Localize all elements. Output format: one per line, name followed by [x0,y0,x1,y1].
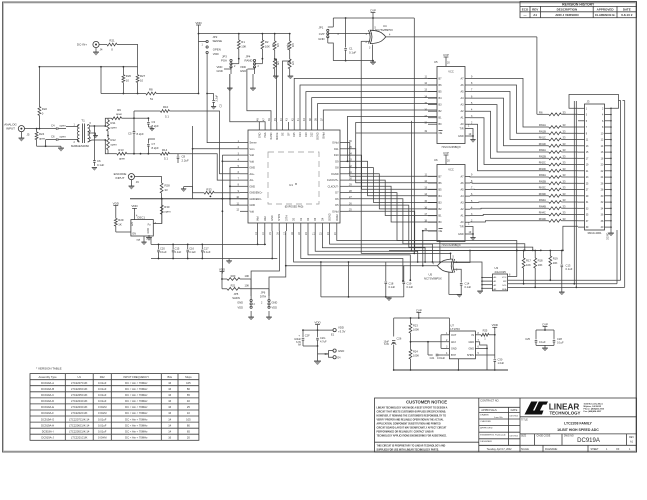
resistor RN3D [539,192,578,197]
svg-text:GND: GND [250,167,256,170]
label ANALOG INPUT [4,122,17,130]
svg-text:GND: GND [240,69,246,73]
power VDD reg [492,323,499,335]
resistor R17 [522,251,531,285]
svg-text:R17: R17 [526,259,531,263]
svg-text:16: 16 [168,393,171,397]
capacitor row C20 C15 C16 C17 [151,238,277,259]
svg-text:INPUT FREQUENCY: INPUT FREQUENCY [123,375,149,379]
svg-text:VDD: VDD [213,52,219,56]
svg-text:0.1uF: 0.1uF [97,163,104,167]
svg-text:DC < Ain < 70MHz: DC < Ain < 70MHz [125,399,148,403]
connector J6 [128,174,139,185]
svg-text:R21: R21 [109,39,115,43]
svg-text:SUPPLIED FOR USE WITH LINEAR T: SUPPLIED FOR USE WITH LINEAR TECHNOLOGY … [377,448,440,451]
svg-text:Vdd: Vdd [264,216,267,221]
svg-text:R19: R19 [553,257,558,261]
ground U4 [369,45,373,61]
svg-text:R29: R29 [118,218,124,222]
svg-text:SHDN: SHDN [232,296,240,300]
svg-text:DC < Ain < 70MHz: DC < Ain < 70MHz [125,436,148,440]
ic U7 LT1763 [449,324,475,359]
svg-text:EN: EN [133,233,137,236]
power VDD at OSC1 [131,204,138,219]
svg-text:MABAES0060: MABAES0060 [71,144,89,148]
ground rail arrow [370,61,376,65]
svg-text:RAND: RAND [245,59,253,63]
svg-text:DRAWN: DRAWN [480,414,489,417]
svg-text:DC < Ain < 70MHz: DC < Ain < 70MHz [125,381,148,385]
svg-text:ENGINEER B. Padmarabi: ENGINEER B. Padmarabi [480,433,506,436]
svg-text:C2: C2 [218,104,222,108]
svg-text:100K: 100K [413,328,419,332]
svg-text:80: 80 [187,387,190,391]
wire OE net [283,60,291,122]
wire VDD drop [100,66,102,94]
svg-text:105: 105 [186,417,191,421]
wire Vdd pins to rail [257,231,266,245]
svg-text:C13: C13 [566,264,571,268]
svg-text:REV: REV [532,8,538,12]
svg-text:LTC2205CUK-14: LTC2205CUK-14 [69,429,90,433]
resistor RN2A [539,148,578,153]
svg-text:RAND: RAND [270,132,273,139]
svg-text:Fax: (408)434-0507: Fax: (408)434-0507 [584,410,603,413]
node CVP c25 [542,322,548,330]
buffer U6 [424,151,475,247]
svg-text:Msps: Msps [185,375,192,379]
wire Vcm net [192,126,240,199]
svg-text:DWG NO: DWG NO [564,436,574,438]
ground C18 C19 [386,297,391,301]
svg-text:0.01uF: 0.01uF [98,423,107,427]
svg-text:VCC: VCC [448,168,454,172]
svg-text:Assembly Type: Assembly Type [39,375,58,379]
ground below R5 [273,76,279,79]
svg-text:LTC2205CUK: LTC2205CUK [71,393,88,397]
connector J4 DC-IN [77,41,103,51]
resistor R19 [549,251,558,282]
svg-text:14: 14 [168,423,171,427]
svg-text:R21: R21 [231,284,236,288]
wire SCL SDA right [524,284,625,288]
svg-text:RN4D: RN4D [539,217,546,221]
svg-text:SHEET: SHEET [591,448,600,451]
svg-text:SHDN: SHDN [467,354,474,357]
svg-text:DC919A-B: DC919A-B [41,387,54,391]
svg-text:0.1uF: 0.1uF [175,250,182,254]
svg-text:GND: GND [237,301,243,305]
svg-text:16: 16 [168,399,171,403]
svg-text:6-8-10 2: 6-8-10 2 [621,13,633,17]
svg-text:open: open [60,123,67,127]
svg-text:J5: J5 [27,133,30,137]
svg-text:C5: C5 [128,132,132,136]
svg-text:C16: C16 [189,246,194,250]
svg-text:16-BIT HIGH SPEED ADC: 16-BIT HIGH SPEED ADC [557,428,599,432]
svg-text:16: 16 [168,436,171,440]
svg-text:OGND: OGND [331,173,339,176]
resistor R24a [409,341,419,371]
wire pin15 gnd [271,231,273,259]
svg-text:0.1uF: 0.1uF [389,285,396,289]
resistor RN4B [539,204,578,209]
svg-text:DC919A-F: DC919A-F [41,411,54,415]
capacitor C26 [384,337,402,371]
svg-text:Tuesday, April 17, 2002: Tuesday, April 17, 2002 [487,448,513,451]
svg-text:40: 40 [187,399,190,403]
svg-text:R27: R27 [140,74,146,78]
svg-text:WP: WP [503,281,507,283]
svg-text:INPUT: INPUT [6,127,15,131]
ground below C6 [92,168,97,171]
resistor R9 [108,108,135,120]
svg-text:8.2pF: 8.2pF [152,124,159,128]
svg-text:DATE: DATE [511,408,518,412]
svg-text:R22: R22 [100,375,105,379]
ground at J5 [19,132,25,142]
svg-text:D11: D11 [334,148,339,151]
ground JP5 [248,311,254,320]
wire OE U5a [356,132,428,134]
wire U4 out [386,34,537,115]
resistor R12 [107,136,118,154]
wire CVP rail top [333,17,414,19]
ground at OSC1 [141,236,148,245]
ground below R7 [288,76,294,79]
power VDD entry [314,320,321,331]
wire bus D0-D4 below U1 [301,231,441,282]
resistor R23a [409,317,419,342]
svg-text:C4: C4 [51,123,55,127]
capacitor C21 [427,341,445,360]
svg-text:GND: GND [338,349,344,353]
svg-text:DC < Ain < 70MHz: DC < Ain < 70MHz [125,405,148,409]
svg-text:E/D: E/D [131,222,134,226]
wire bus U1 to U6 inputs [348,143,437,222]
ground at J6 [129,180,135,190]
svg-text:FILENAME:: FILENAME: [545,448,558,451]
svg-text:R12: R12 [111,138,117,142]
svg-text:RN1A: RN1A [539,123,546,127]
capacitor C2 [207,94,222,110]
resistor R30 [160,198,171,224]
svg-text:33: 33 [563,110,567,114]
terminal E2 [325,349,345,360]
wire WP net [520,279,621,281]
svg-text:open: open [111,142,118,146]
svg-text:C2G: C2G [320,336,325,340]
jumper JP4 RAND [240,55,262,75]
svg-text:R23: R23 [413,324,418,328]
svg-text:OGND: OGND [329,213,332,221]
svg-text:DC919A-I: DC919A-I [42,429,54,433]
U1 bottom pins [255,213,339,235]
svg-text:DC-IN+: DC-IN+ [77,43,87,47]
svg-text:RN3A: RN3A [539,173,546,177]
svg-text:6.3V: 6.3V [384,343,389,346]
resistor R2 [261,34,270,60]
svg-text:GND: GND [258,132,261,138]
wire J3 gnd bus [610,108,612,233]
svg-text:10K: 10K [241,44,246,48]
resistor RN4A [539,198,578,203]
resistor R20 [221,274,251,281]
svg-text:DC < Ain < 70MHz: DC < Ain < 70MHz [125,387,148,391]
wire U2 vcc [450,253,452,260]
svg-text:GND: GND [250,204,256,207]
svg-text:OVdd: OVdd [332,142,339,145]
svg-text:GND/ENC-: GND/ENC- [250,198,263,201]
J3 right pins [601,107,612,229]
ground C14 [449,272,462,297]
svg-text:OGND: OGND [317,132,320,140]
svg-text:APPLICATION. COMPONENT SUBSTIT: APPLICATION. COMPONENT SUBSTITUTION AND … [377,423,442,426]
svg-text:C14: C14 [465,282,470,286]
svg-text:C28: C28 [557,337,562,341]
svg-text:D14: D14 [299,132,302,137]
capacitor C2G [316,330,327,346]
svg-text:10K: 10K [265,44,270,48]
wire reg out [440,334,442,336]
svg-text:OE: OE [282,132,285,136]
svg-text:T1: T1 [81,119,85,123]
svg-text:CLKOUT-: CLKOUT- [328,185,339,188]
resistor R8 [101,87,199,101]
svg-text:(EXPOSED PAD): (EXPOSED PAD) [285,206,304,209]
connector J5 [18,126,30,137]
resistor R25 [481,329,496,341]
svg-text:8.2pF: 8.2pF [137,132,144,136]
svg-text:CAGE CODE: CAGE CODE [537,435,551,438]
svg-text:10K: 10K [538,263,543,267]
jumper JP5 [232,279,255,310]
svg-text:GND: GND [451,347,457,350]
svg-text:C21: C21 [430,356,435,360]
svg-text:APPROVALS: APPROVALS [481,408,497,412]
svg-text:C2F: C2F [305,334,310,338]
svg-text:10: 10 [187,411,190,415]
svg-text:CIRCUIT THAT MEETS CUSTOMER-SU: CIRCUIT THAT MEETS CUSTOMER-SUPPLIED SPE… [377,411,447,414]
svg-text:DESIGNER: DESIGNER [480,441,492,443]
svg-text:R28: R28 [165,184,171,188]
svg-text:SDA: SDA [502,288,507,291]
svg-text:OE: OE [439,230,443,233]
svg-text:C6: C6 [51,134,55,138]
capacitor C19 [403,266,414,297]
svg-text:ADD J VERSION: ADD J VERSION [555,13,578,17]
svg-text:CONTRACT NO.: CONTRACT NO. [480,400,499,403]
oscillator OSC1 [131,216,157,242]
xor gate U4 [366,24,393,44]
wire U2 in2 [452,268,455,270]
svg-text:open: open [60,134,67,138]
svg-text:SCALE: SCALE [521,448,529,451]
wire OVdd long vertical2 [411,121,413,252]
ground below C3 [148,127,154,131]
resistor RN2D [539,167,578,172]
svg-text:D10: D10 [334,154,339,157]
svg-text:16: 16 [168,411,171,415]
svg-text:2.2uF: 2.2uF [215,94,219,101]
svg-text:0.1uF: 0.1uF [539,340,546,344]
svg-text:10: 10 [140,78,144,82]
svg-text:0.1uF: 0.1uF [465,285,472,289]
resistor RN1C [539,136,578,141]
svg-text:DC < Ain < 70MHz: DC < Ain < 70MHz [125,411,148,415]
wire R24 bottom [37,145,47,147]
svg-text:GND: GND [318,37,324,41]
resistor RN1D [539,142,578,147]
svg-text:OVdd: OVdd [336,214,339,221]
ic U3 24LC025 [493,266,508,291]
svg-text:RN1D: RN1D [539,142,546,146]
svg-text:LTC2204CUK: LTC2204CUK [71,399,88,403]
svg-text:U5: U5 [434,60,438,64]
svg-text:DC919A-A: DC919A-A [41,381,54,385]
svg-text:REV: REV [629,437,634,439]
svg-text:0.1uF: 0.1uF [349,50,356,54]
power VDD top rail [195,21,202,34]
svg-text:04/17/02: 04/17/02 [510,416,519,418]
svg-text:VDD: VDD [492,323,499,327]
wire Ain- to IC [186,154,240,180]
resistor R3 [271,34,280,59]
resistor R11 [107,118,118,136]
svg-text:VDD: VDD [219,267,226,271]
svg-text:LTC2207CUK: LTC2207CUK [71,381,88,385]
svg-text:DC919A-G: DC919A-G [41,417,54,421]
capacitor C30 [494,335,505,371]
svg-text:TECHNOLOGY: TECHNOLOGY [550,410,581,415]
label ENCODE INPUT [114,172,127,180]
svg-text:R20: R20 [231,274,236,278]
svg-text:open: open [286,44,290,51]
svg-text:LT1763: LT1763 [450,327,460,331]
resistor R33 [204,187,240,197]
jumper JP3 PGA [217,55,239,75]
svg-text:C15: C15 [175,246,180,250]
svg-text:0.1uF: 0.1uF [204,250,211,254]
wire vertical pair left of J3 [573,101,577,288]
svg-text:C25: C25 [525,337,530,341]
svg-text:C18: C18 [389,282,394,286]
wire bus U1 right lower [348,193,542,252]
wire PGA net [230,74,265,122]
svg-text:R10: R10 [163,105,169,109]
node CVP reg [416,308,422,319]
svg-text:OVdd: OVdd [322,132,325,139]
svg-text:VDD: VDD [238,306,244,310]
wire Vdd pins net [222,155,241,273]
svg-text:1K: 1K [118,222,122,226]
svg-text:D12: D12 [311,132,314,137]
wire R21 to rail [117,45,138,67]
ground OSC1 row [146,235,152,241]
svg-text:SENSE: SENSE [213,39,223,43]
svg-text:24LC025: 24LC025 [495,270,507,274]
capacitor C2F [294,330,310,347]
svg-text:R8: R8 [149,87,153,91]
svg-text:OPEN: OPEN [213,48,221,52]
svg-text:R26: R26 [126,74,132,78]
svg-text:LTC2206CUK-14: LTC2206CUK-14 [69,423,90,427]
svg-text:10K: 10K [553,261,558,265]
svg-text:RN3B: RN3B [539,179,546,183]
svg-text:U6: U6 [434,158,438,162]
wire J3 top loop [569,95,619,109]
wire U2 in1 [453,250,471,263]
wire U2 rail [361,252,450,254]
svg-text:DC919A-H: DC919A-H [41,423,54,427]
svg-text:LTC2203CUK: LTC2203CUK [71,405,88,409]
svg-text:VCC: VCC [448,70,454,74]
svg-text:VERIFY PROPER AND RELIABLE OPE: VERIFY PROPER AND RELIABLE OPERATION IN … [377,419,445,422]
svg-text:A1: A1 [533,13,537,17]
svg-text:REVISION HISTORY: REVISION HISTORY [562,2,595,6]
svg-text:MODE: MODE [276,132,279,140]
wire U4 in2 [361,41,370,253]
svg-text:CIRCUIT BOARD LAYOUT MAY SIGNI: CIRCUIT BOARD LAYOUT MAY SIGNIFICANTLY A… [377,427,447,430]
svg-text:U1: U1 [77,375,81,379]
ground cap row [226,259,232,264]
resistor RN2B [539,154,578,159]
svg-text:DC919A-J: DC919A-J [41,436,54,440]
wire bus U5 outputs to RN [470,78,549,170]
ground entry [314,346,329,365]
svg-text:CLARENCE B.: CLARENCE B. [595,13,616,17]
ground JP6 [266,311,272,320]
svg-text:Sense: Sense [250,142,258,145]
connector J3 outline [585,100,605,236]
resistor R21 [99,39,117,52]
resistor RN3C [539,186,578,191]
capacitor C14 [454,269,472,294]
U3 right pins [508,251,536,288]
svg-text:NC7SV86P5X: NC7SV86P5X [375,28,393,32]
svg-text:OF: OF [616,448,620,451]
U1 top pins [257,118,326,140]
svg-text:R4: R4 [291,44,295,48]
svg-text:Vcm: Vcm [250,148,255,151]
svg-text:0.01uF: 0.01uF [98,417,107,421]
svg-text:3M10-4001: 3M10-4001 [587,231,602,235]
svg-text:CVP: CVP [416,308,422,312]
wire top rail left [39,66,138,68]
svg-text:RN2C: RN2C [539,161,546,165]
svg-text:J3: J3 [587,100,590,104]
version table [30,367,199,441]
resistor R24 [35,128,45,146]
svg-text:8.2pF: 8.2pF [152,146,159,150]
resistor R27 [136,67,145,95]
svg-text:100K: 100K [413,354,419,358]
svg-text:1K: 1K [286,62,290,66]
svg-text:SHDN: SHDN [278,214,281,221]
svg-text:BYP: BYP [451,354,456,357]
svg-text:CUSTOMER NOTICE: CUSTOMER NOTICE [406,399,447,404]
svg-text:CVP: CVP [443,53,449,57]
svg-text:LTC2202CUK: LTC2202CUK [71,411,88,415]
capacitor C3 [134,117,159,128]
wire encode rail [130,198,248,200]
svg-text:RN4C: RN4C [539,211,546,215]
resistor RN3B [539,179,578,184]
svg-text:C19: C19 [407,282,412,286]
svg-text:Vdd: Vdd [250,210,255,213]
svg-text:R22: R22 [42,107,48,111]
svg-text:TITLE: TITLE [521,418,528,421]
